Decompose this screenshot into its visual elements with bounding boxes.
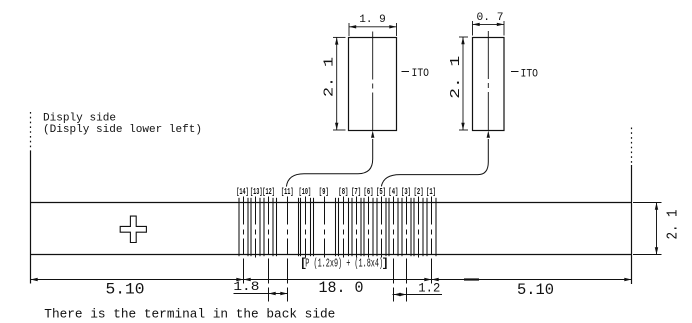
strip height dimension 2.1: [633, 203, 682, 255]
dimension 5.10 left: [31, 278, 244, 299]
detail view A: wide ITO pad: [349, 32, 397, 131]
svg-text:[P (1.2x9) + (1.8x4)]: [P (1.2x9) + (1.8x4)]: [301, 256, 387, 270]
detail A width dimension 1.9: [349, 14, 397, 36]
svg-text:[5]: [5]: [376, 186, 386, 197]
detail B ITO label: [511, 69, 538, 81]
terminal [6]: [364, 197, 373, 258]
leader from terminal [11] to detail A: [286, 131, 374, 187]
svg-text:[: [: [300, 256, 307, 270]
terminal [2]: [414, 197, 423, 258]
terminal [4]: [389, 197, 398, 302]
svg-text:1.2: 1.2: [418, 280, 440, 295]
svg-text:5.10: 5.10: [517, 281, 554, 299]
terminal [7]: [352, 197, 361, 258]
dimension 5.10 right: [432, 278, 632, 299]
strip top edge: [31, 202, 632, 204]
overdraw dash on dimension line: [464, 278, 479, 280]
terminal [10]: [301, 197, 311, 258]
terminal [11]: [277, 197, 299, 302]
svg-text:[11]: [11]: [281, 186, 294, 197]
dimension 18.0: [244, 278, 432, 297]
glass right edge: [631, 128, 633, 285]
detail B width dimension 0.7: [473, 12, 505, 35]
note: Disply side: [43, 112, 202, 136]
svg-text:0. 7: 0. 7: [477, 12, 504, 24]
svg-text:2. 1: 2. 1: [321, 57, 337, 97]
terminal [8]: [339, 197, 349, 258]
svg-text:[6]: [6]: [364, 186, 374, 197]
alignment cross mark: [120, 216, 146, 242]
svg-text:1. 9: 1. 9: [359, 14, 386, 26]
terminal [3]: [402, 197, 411, 302]
terminal [14]: [239, 197, 248, 284]
svg-text:[2]: [2]: [414, 186, 424, 197]
terminal [12]: [264, 197, 273, 302]
svg-text:]: ]: [382, 256, 389, 270]
svg-text:ITO: ITO: [521, 69, 539, 81]
svg-text:[4]: [4]: [388, 186, 398, 197]
svg-text:There is the terminal in the b: There is the terminal in the back side: [44, 308, 335, 322]
svg-text:[14]: [14]: [236, 186, 249, 197]
dimension line row 1: [31, 279, 632, 281]
svg-text:[1]: [1]: [426, 186, 436, 197]
svg-text:[12]: [12]: [262, 186, 275, 197]
svg-text:[13]: [13]: [250, 186, 263, 197]
terminal [5]: [377, 197, 386, 258]
svg-text:(Disply side lower left): (Disply side lower left): [43, 124, 202, 136]
svg-text:[8]: [8]: [338, 186, 348, 197]
detail B height dimension 2.1: [448, 37, 468, 130]
svg-text:[7]: [7]: [351, 186, 361, 197]
svg-text:[3]: [3]: [401, 186, 411, 197]
detail A height dimension 2.1: [321, 37, 345, 130]
svg-text:1.8: 1.8: [233, 279, 259, 294]
svg-text:Disply side: Disply side: [43, 112, 116, 124]
svg-text:[10]: [10]: [299, 186, 312, 197]
dimension 1.2 (narrow pitch): [393, 280, 443, 296]
svg-text:2. 1: 2. 1: [665, 210, 682, 240]
strip bottom edge: [31, 254, 632, 256]
detail view B: narrow ITO pad: [473, 31, 505, 131]
dimension 1.8 (wide pitch): [233, 279, 287, 295]
svg-text:ITO: ITO: [412, 68, 430, 80]
svg-text:2. 1: 2. 1: [448, 56, 464, 99]
detail A ITO label: [402, 68, 430, 80]
terminal [1]: [427, 197, 436, 284]
terminal [9]: [314, 197, 336, 258]
svg-text:18. 0: 18. 0: [319, 279, 364, 297]
terminal [13]: [251, 197, 260, 258]
glass left edge: [30, 112, 32, 284]
leader from terminal [5] to detail B: [381, 131, 490, 187]
svg-text:[9]: [9]: [319, 186, 329, 197]
svg-text:5.10: 5.10: [106, 280, 145, 298]
